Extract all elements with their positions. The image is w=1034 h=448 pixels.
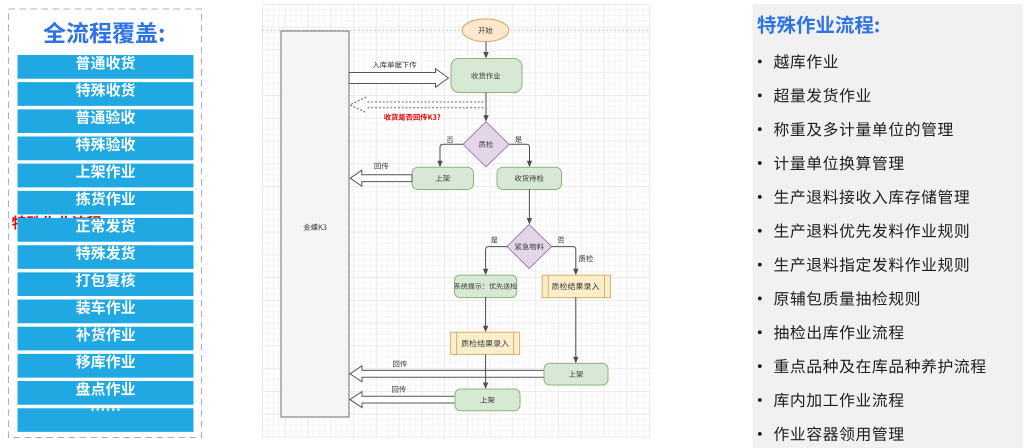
- bullet item 库内加工作业流程: [758, 393, 904, 408]
- button 打包复核: [18, 272, 194, 296]
- decision 质检: [463, 122, 509, 167]
- block arrow 回传 (third): [350, 386, 455, 408]
- bullet item 原辅包质量抽检规则: [758, 291, 919, 306]
- label 是 (紧急物料): [491, 237, 498, 244]
- button 装车作业: [18, 300, 194, 324]
- label 质检: [579, 255, 593, 262]
- left panel dashed border: [9, 9, 202, 438]
- hidden red text 特殊作业流程: [12, 215, 101, 229]
- predefined process 质检结果录入 (middle): [451, 332, 520, 354]
- decision 紧急物料: [507, 225, 552, 269]
- wire 质检 yes to 收货待检: [509, 144, 532, 167]
- bullet item 超量发货作业: [758, 88, 870, 103]
- right panel background: [753, 4, 1024, 448]
- button ……: [18, 408, 194, 432]
- button 拣货作业: [18, 191, 194, 215]
- wire 质检结果录入 right to 上架: [573, 297, 578, 363]
- dashed return arrow 收货是否回传K3?: [350, 97, 484, 120]
- flowchart grid background: [262, 4, 650, 438]
- K3 system box 金蝶K3: [281, 31, 349, 417]
- page boundary dashed line: [262, 29, 650, 31]
- button 特殊收货: [18, 82, 194, 106]
- wire 收货作业 to 质检: [483, 93, 488, 122]
- process 系统提示：优先送检: [454, 275, 517, 298]
- bullet item 计量单位换算管理: [758, 156, 904, 171]
- button 普通验收: [18, 109, 194, 133]
- button 补货作业: [18, 327, 194, 351]
- wire 系统提示 to 质检结果录入: [483, 297, 488, 332]
- label 否 (质检): [447, 137, 454, 143]
- wire 紧急物料 no to 质检结果录入: [551, 247, 578, 276]
- wire 质检 no to 上架: [437, 144, 463, 167]
- left title 全流程覆盖:: [43, 22, 163, 44]
- bullet item 称重及多计量单位的管理: [758, 122, 953, 137]
- button 正常发货: [18, 218, 194, 242]
- button 移库作业: [18, 354, 194, 378]
- bullet item 生产退料指定发料作业规则: [758, 257, 968, 272]
- process 收货待检: [497, 167, 562, 189]
- bullet item 作业容器领用管理: [758, 426, 904, 441]
- start ellipse 开始: [462, 19, 509, 42]
- block arrow 回传 (second): [350, 361, 544, 382]
- button 盘点作业: [18, 381, 194, 405]
- bullet item 重点品种及在库品种养护流程: [758, 359, 986, 374]
- button 上架作业: [18, 164, 194, 188]
- button 普通收货: [18, 55, 194, 79]
- bullet item 生产退料优先发料作业规则: [758, 223, 968, 238]
- process 上架 (bottom): [455, 389, 520, 411]
- bullet item 越库作业: [758, 54, 838, 69]
- right title 特殊作业流程:: [757, 16, 878, 34]
- button 特殊验收: [18, 137, 194, 161]
- bullet item 抽检出库作业流程: [758, 325, 904, 340]
- block arrow 入库单据下传: [349, 61, 449, 87]
- bullet item 生产退料接收入库存储管理: [758, 190, 969, 205]
- wire 收货待检 to 紧急物料: [527, 189, 532, 224]
- wire start to 收货作业: [483, 42, 488, 59]
- process 上架 (right): [544, 363, 608, 385]
- block arrow 回传 (first): [350, 163, 412, 187]
- wire 质检结果录入 to 上架 (bottom): [483, 354, 488, 389]
- label 是 (质检): [515, 136, 522, 143]
- label 否 (紧急物料): [558, 237, 565, 243]
- process 收货作业: [451, 59, 522, 93]
- wire 紧急物料 yes to 系统提示: [483, 247, 508, 276]
- button 特殊发货: [18, 245, 194, 269]
- process 上架 (first): [412, 167, 474, 189]
- predefined process 质检结果录入 (right): [542, 275, 610, 298]
